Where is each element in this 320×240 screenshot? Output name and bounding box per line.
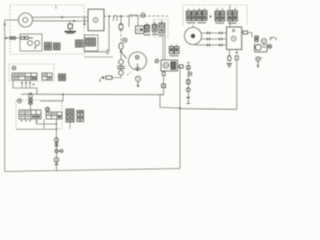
fuse F1 oval	[119, 24, 123, 30]
link riser x63	[40, 94, 63, 101]
spark plug lead	[69, 21, 71, 24]
ignition switch circle	[262, 39, 267, 44]
wire	[120, 64, 122, 66]
starter ground circle	[256, 57, 262, 61]
rear wire corner to harness	[160, 95, 181, 109]
connector on riser top	[179, 65, 183, 68]
connector block 4 (3x2)	[86, 38, 96, 46]
wire down into key box	[137, 15, 139, 26]
fuse chain junction	[120, 15, 122, 17]
enclosure magneto assembly (dashed)	[10, 5, 84, 54]
lighting switch table	[19, 110, 41, 119]
resistor pair on coil wire	[21, 37, 33, 40]
headlight circle	[129, 52, 147, 70]
enclosure stub	[55, 5, 57, 9]
headlight wire 3	[194, 44, 227, 46]
ground symbol near CDI	[83, 17, 86, 26]
relay cluster body	[255, 44, 268, 53]
flasher connector circle with ground arrow	[135, 76, 140, 88]
chain small ring	[55, 142, 58, 145]
wire lower link	[84, 56, 113, 58]
connector ring 2	[119, 70, 124, 75]
junction dot A	[61, 16, 63, 18]
chain ring connector 1	[55, 138, 59, 142]
wire cluster to drop	[85, 50, 108, 53]
lighting coil wire lower	[32, 20, 88, 22]
taillight feed wire down	[163, 75, 165, 94]
brake switch sensor	[29, 93, 33, 110]
wire node to connector	[120, 54, 122, 60]
pickup coil circle 1	[28, 41, 33, 46]
taillight assembly box	[161, 60, 178, 71]
link wire y88	[13, 81, 37, 95]
capacitor bars	[117, 66, 124, 68]
chain B wire	[187, 63, 189, 104]
wire magneto to ground bus	[5, 19, 19, 21]
CDI output wire (dashed)	[104, 15, 168, 17]
chain small circle pair	[55, 149, 63, 152]
connector block pair 1	[45, 43, 52, 51]
switch node dot	[120, 51, 122, 53]
junction dot B	[73, 20, 75, 22]
bracket marks	[271, 38, 277, 41]
inline fuse box	[106, 76, 112, 79]
tail return riser wire	[179, 67, 181, 169]
wire fuse to switch	[120, 30, 122, 43]
chain bar 1	[55, 145, 58, 147]
handlebar table 2	[42, 73, 52, 80]
connector block 3	[76, 40, 84, 47]
ground bus left vertical	[4, 20, 6, 172]
indicator assembly boxes pair	[169, 45, 179, 57]
main harness chain junction dot	[56, 128, 58, 130]
spark plug	[68, 24, 73, 31]
wire bend down to connector row	[108, 16, 110, 52]
pin 2 long wire down	[236, 60, 238, 110]
top right enclosure (dashed)	[183, 5, 247, 25]
pilot box enclosure (dashed)	[154, 20, 169, 38]
chain B connector box 2	[187, 80, 190, 84]
table pin dots	[21, 120, 31, 122]
link wire y124	[37, 123, 57, 125]
brake switch drop wire	[35, 119, 37, 124]
connector legs on output wire	[114, 16, 117, 21]
pin 2 connector marks	[235, 53, 238, 60]
magneto flywheel circle	[19, 13, 33, 27]
main harness chain wire	[56, 119, 58, 171]
connector tick on drop wire	[106, 50, 109, 53]
wire elbow to main switch	[129, 15, 138, 27]
lighting coil wire upper	[32, 16, 88, 18]
headlight bulb cross	[135, 55, 139, 59]
long link wire to tail junction	[21, 93, 164, 96]
fuse next to regulator	[242, 31, 252, 38]
terminal tick	[99, 78, 101, 81]
meter bulb 2	[152, 22, 157, 33]
indicator lamp pair 2	[197, 8, 207, 24]
chain B bar	[187, 97, 190, 99]
headlight ground marks	[135, 64, 140, 71]
pickup coil circle 2 with arrow	[34, 41, 39, 49]
wire elbow to fuse box	[112, 75, 121, 78]
wire coil to ground bus	[5, 37, 20, 39]
connector block pair 2	[54, 43, 61, 50]
circled marker on table2	[46, 107, 50, 111]
handlebar switch table	[12, 73, 37, 80]
bullet connector pair on coil wire	[10, 37, 16, 40]
taillight feed double wire	[163, 37, 165, 60]
pin stub wires	[22, 80, 30, 88]
rear harness wire horizontal	[181, 108, 237, 111]
handlebar connector block	[59, 74, 66, 81]
junction dot on output	[108, 15, 110, 17]
chain B end tick	[186, 103, 190, 105]
spark plug ground bars	[65, 32, 77, 34]
headlight 2 circle	[184, 27, 201, 44]
connector ring 1	[119, 60, 124, 65]
enclosure bottom bus wire	[16, 128, 57, 130]
chain B ring connector	[186, 88, 190, 92]
chain B circled marker	[188, 72, 192, 76]
handlebar switch enclosure (dashed)	[9, 64, 54, 81]
indicator lamp pair 3	[215, 8, 225, 24]
junction dot ground bus	[5, 37, 7, 39]
inline connector on tail wire	[162, 84, 166, 88]
lighting switch enclosure (dashed)	[16, 100, 62, 129]
chain bar 2	[55, 163, 58, 165]
wire to terminal	[104, 77, 106, 79]
regulator pin 1 stub	[228, 50, 230, 56]
indicator lamp pair 1	[186, 9, 196, 24]
ground lead arrowhead	[3, 24, 6, 27]
rear connector block 2	[77, 111, 84, 122]
block stub wires	[44, 119, 70, 129]
starter ground arrow	[257, 61, 260, 68]
taillight right wire to riser	[178, 66, 181, 68]
rear connector block 1	[66, 109, 74, 122]
junction dot on link	[62, 94, 64, 96]
terminal arrowhead	[101, 76, 104, 79]
feed wire to regulator	[229, 5, 231, 27]
wire down to fuse	[120, 16, 122, 23]
lighting switch table 2	[46, 112, 62, 119]
connector cluster box under CDI	[85, 35, 99, 51]
meter bulb 3	[159, 20, 165, 33]
regulator pin 2 stub	[236, 50, 238, 54]
switch blade	[121, 52, 127, 58]
circled marker handlebar	[12, 66, 16, 70]
bulb labels smudge	[144, 34, 166, 37]
dashed link	[127, 72, 132, 76]
ground bus bottom wire	[5, 169, 180, 172]
harness chain B top tick	[187, 62, 190, 64]
wire	[120, 69, 122, 71]
CDI unit box	[88, 9, 104, 31]
indicator lamp pair 4	[228, 8, 238, 25]
circled plus marker	[268, 45, 272, 49]
circled connector marker 2	[123, 38, 127, 42]
switch pin dots	[21, 82, 34, 85]
headlight 2 stub	[192, 25, 194, 27]
connector ticks on wires	[207, 32, 222, 47]
regulator box	[227, 27, 242, 50]
junction dot between pairs	[210, 16, 212, 18]
taillight circled marker	[155, 59, 159, 63]
headlight wire 2	[202, 38, 227, 40]
meter bulb 1	[145, 23, 150, 33]
drop wire junction dot	[56, 123, 58, 125]
junction tail/riser	[179, 108, 181, 110]
source coil inner box	[20, 34, 42, 51]
circled marker brake	[18, 99, 22, 103]
pin 1 oval connector	[228, 56, 231, 61]
pin 1 ground bars	[227, 64, 233, 67]
headlight wire 1	[201, 32, 226, 34]
main switch box C	[136, 26, 145, 34]
chain B connector box 1	[187, 66, 190, 69]
taillight pin connector	[162, 72, 165, 76]
circled connector marker 1	[141, 13, 145, 17]
fuse holder vertical	[255, 36, 258, 42]
chain ring connector 2	[54, 158, 59, 163]
main fuse body	[119, 43, 123, 51]
